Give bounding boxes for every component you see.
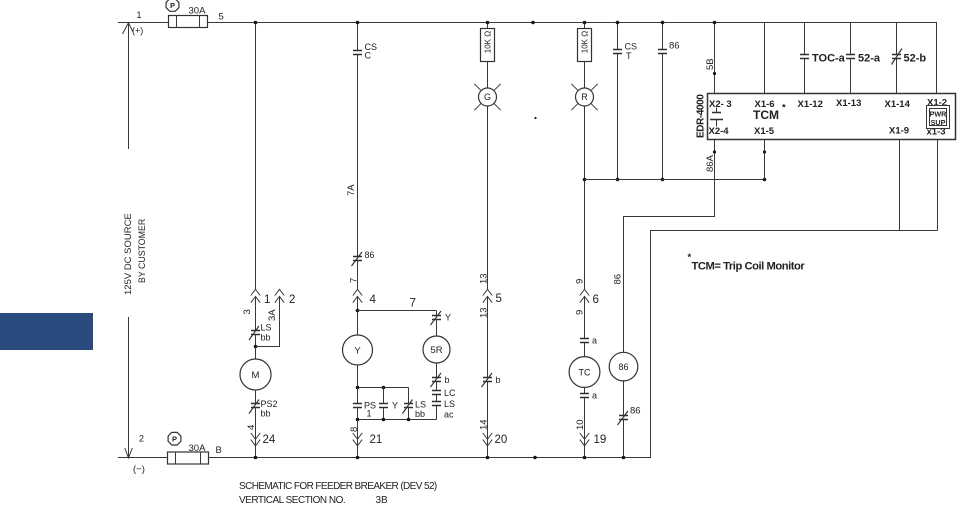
wire group to bottom rail (357, 420, 359, 458)
lamp R (576, 88, 594, 106)
relay coil 5R (423, 336, 450, 363)
svg-text:X1-9: X1-9 (889, 126, 909, 137)
arrow chevrons up node 6 (580, 289, 589, 302)
wire Y coil to parallel group (357, 365, 359, 388)
arrow (+) terminal up (123, 23, 134, 34)
svg-text:3: 3 (242, 309, 253, 314)
contact LC (NO) (432, 390, 441, 392)
svg-text:1: 1 (264, 294, 270, 306)
wire LS to bottom bus (436, 406, 438, 420)
svg-text:86: 86 (630, 406, 641, 417)
svg-text:3B: 3B (376, 495, 389, 506)
svg-text:13: 13 (479, 273, 490, 284)
relay coil Y (343, 335, 373, 365)
wire 52-b drop (896, 23, 898, 55)
svg-text:5B: 5B (705, 58, 716, 70)
contact a lower (NO) (580, 393, 589, 395)
stray dot bottom rail (533, 456, 537, 460)
svg-text:10K Ω: 10K Ω (484, 31, 493, 53)
wire CS T to bus (617, 54, 619, 180)
node dots G branch rails (486, 21, 490, 25)
wire TOC-a drop (804, 23, 806, 55)
svg-text:P: P (172, 435, 177, 444)
wire 86 to chevron (357, 261, 359, 290)
wire LS to M coil (255, 335, 257, 360)
contact LS bb (NC) (408, 388, 410, 404)
svg-text:TOC-a: TOC-a (812, 53, 846, 65)
wire top to resistor (487, 23, 489, 29)
wire 3A branch (256, 297, 280, 347)
svg-text:5: 5 (496, 293, 502, 305)
power supply PWR SUP box (927, 106, 950, 129)
resistor 10K red lamp (578, 29, 592, 62)
wire b to LC (436, 382, 438, 391)
svg-text:bb: bb (261, 409, 271, 419)
contact PS2 bb (NC) (251, 403, 260, 405)
wire contact to bottom rail (623, 420, 625, 458)
svg-text:Y: Y (445, 313, 451, 323)
contact 52-b (NC) (892, 54, 901, 56)
svg-text:86A: 86A (705, 154, 716, 172)
svg-text:X2-4: X2-4 (709, 126, 730, 137)
wire M branch to LS contact (255, 297, 257, 331)
symbol internal X2 contact (716, 108, 718, 113)
svg-text:R: R (581, 92, 588, 102)
contact a upper (NO) (580, 338, 589, 340)
arrow chevrons down node 19 (580, 433, 589, 446)
wire X1-6 drop (764, 23, 766, 94)
fuse F1 top 30A (169, 16, 208, 28)
svg-text:CS: CS (625, 42, 638, 52)
wire TC to a contact (584, 387, 586, 393)
wire left source rail lower (128, 317, 130, 457)
contact CS T (NO) (613, 49, 622, 51)
wire LC to LS (436, 395, 438, 402)
blue sidebar block (0, 313, 93, 350)
svg-text:24: 24 (263, 434, 276, 446)
arrow chevrons down node 21 (353, 433, 362, 446)
wire 86 coil to contact (623, 381, 625, 416)
wire left source rail upper (128, 23, 130, 149)
arrow chevrons up node 1 (251, 289, 260, 302)
contact 52-a (NO) (846, 54, 855, 56)
stray dot mid (534, 117, 536, 119)
wire resistor to lamp (584, 62, 586, 89)
svg-text:BY CUSTOMER: BY CUSTOMER (137, 219, 147, 283)
svg-text:VERTICAL SECTION NO.: VERTICAL SECTION NO. (239, 495, 345, 506)
svg-text:LS: LS (261, 323, 272, 333)
wire bottom negative rail (118, 231, 938, 458)
contact LS ac (NO) (432, 401, 441, 403)
wire X1-3 drop (937, 140, 939, 231)
svg-text:86: 86 (669, 41, 680, 52)
arrow chevrons down node 24 (251, 433, 260, 446)
arrow chevrons down node 20 (483, 433, 492, 446)
svg-text:X1-12: X1-12 (798, 99, 823, 110)
svg-text:6: 6 (593, 294, 599, 306)
svg-text:5R: 5R (430, 345, 442, 356)
svg-text:19: 19 (594, 434, 607, 446)
wire resistor to lamp (487, 62, 489, 89)
contact 86 (NC) (353, 256, 362, 258)
wire 5R to b contact (436, 363, 438, 378)
svg-text:1: 1 (367, 409, 372, 419)
node dots Y branch rails (356, 21, 360, 25)
svg-text:5: 5 (219, 12, 224, 23)
svg-text:ac: ac (444, 410, 454, 420)
svg-text:2: 2 (289, 294, 295, 306)
node dots R branch rails (583, 21, 587, 25)
wire top to resistor (584, 23, 586, 29)
svg-text:b: b (496, 375, 501, 385)
trip coil TC (569, 357, 600, 388)
wire parallel group bottom bus (358, 419, 437, 421)
svg-text:TC: TC (579, 368, 591, 378)
svg-text:SCHEMATIC FOR FEEDER BREAKER (: SCHEMATIC FOR FEEDER BREAKER (DEV 52) (239, 481, 437, 492)
motor M (240, 359, 271, 390)
symbol P octagon bottom fuse (168, 432, 181, 445)
svg-text:(−): (−) (133, 464, 145, 475)
svg-text:bb: bb (415, 409, 425, 419)
svg-text:9: 9 (575, 310, 586, 315)
svg-text:PS2: PS2 (261, 399, 278, 409)
node dot at monitor bus (583, 178, 587, 182)
svg-text:86: 86 (613, 274, 624, 285)
svg-text:86: 86 (365, 250, 375, 260)
svg-text:G: G (484, 92, 491, 102)
svg-text:bb: bb (261, 333, 271, 343)
wire 86 to bus (662, 54, 664, 180)
svg-text:B: B (216, 445, 222, 456)
fuse F2 bottom 30A (168, 452, 209, 464)
svg-text:LC: LC (444, 388, 456, 398)
wire X1-9 drop (899, 140, 901, 231)
svg-text:EDR-4000: EDR-4000 (696, 94, 707, 138)
node dots M branch rails (254, 21, 258, 25)
wire 52-a drop (850, 23, 852, 55)
wire chevron to a contact (584, 297, 586, 339)
wire PS2 to bottom rail (255, 408, 257, 458)
wire monitor bus y=179.5 (585, 179, 765, 181)
wire a to TC coil (584, 343, 586, 357)
resistor 10K green lamp (481, 29, 495, 62)
svg-text:X1-2: X1-2 (927, 98, 947, 109)
wire a to bottom rail (584, 398, 586, 458)
wire M coil to PS2 (255, 390, 257, 404)
svg-text:LS: LS (415, 400, 426, 410)
symbol P octagon top fuse (166, 0, 179, 11)
wire horizontal 7 to 5R branch (358, 310, 437, 312)
node 86A pin dot (713, 150, 716, 153)
svg-text:X1-5: X1-5 (754, 126, 775, 137)
svg-text:4: 4 (370, 294, 377, 306)
svg-text:T: T (626, 51, 632, 61)
svg-text:4: 4 (246, 425, 257, 430)
wire Y branch top (357, 23, 359, 51)
node 5B pin dot (713, 72, 716, 75)
svg-text:86: 86 (618, 362, 628, 372)
svg-text:P: P (170, 1, 175, 10)
svg-text:52-a: 52-a (858, 53, 881, 65)
contact PS 1 (NO) (357, 388, 359, 404)
contact LS bb (NC) (251, 330, 260, 332)
svg-text:3A: 3A (267, 309, 278, 321)
node junction to 5R (356, 309, 360, 313)
arrow (-) terminal down (125, 448, 133, 458)
lockout coil 86 (609, 352, 638, 381)
svg-text:X2- 3: X2- 3 (709, 99, 732, 110)
svg-text:TCM= Trip Coil Monitor: TCM= Trip Coil Monitor (692, 261, 806, 273)
svg-text:21: 21 (370, 434, 383, 446)
svg-text:30A: 30A (189, 5, 207, 16)
wire top to CS T (617, 23, 619, 50)
contact TOC-a (NO) (800, 54, 809, 56)
wire 5B to X2-3 (714, 23, 716, 94)
lamp G (479, 88, 497, 106)
svg-text:7: 7 (410, 298, 416, 310)
contact Y (NC) (436, 311, 438, 316)
wire parallel group top bus (358, 387, 409, 389)
branch 3A chevrons up node 2 (275, 289, 284, 302)
wire chevron to b contact (487, 297, 489, 378)
svg-text:(+): (+) (132, 26, 143, 36)
contact b (NC) (432, 377, 441, 379)
SECTION: EDR-4000 relay box (708, 94, 956, 140)
contact b (NC) (483, 377, 492, 379)
arrow chevrons up node 4 (353, 289, 362, 302)
svg-text:b: b (445, 375, 450, 385)
svg-text:a: a (592, 391, 597, 401)
svg-text:52-b: 52-b (904, 53, 927, 65)
wire X1-5 pin to bus (764, 140, 766, 180)
svg-text:8: 8 (349, 427, 360, 432)
svg-text:7: 7 (349, 278, 360, 283)
wire lamp to chevron (487, 106, 489, 289)
wire chevron to Y coil (357, 297, 359, 335)
arrow chevrons up node 5 (483, 289, 492, 302)
svg-text:20: 20 (495, 434, 508, 446)
contact Y seal-in (NO) (383, 388, 385, 404)
wire 86A route from EDR pin (624, 140, 715, 353)
svg-text:TCM: TCM (753, 108, 779, 122)
svg-text:14: 14 (479, 419, 490, 430)
wire b to bottom rail (487, 382, 489, 458)
svg-text:X1-13: X1-13 (836, 98, 861, 109)
svg-text:Y: Y (392, 401, 398, 411)
svg-text:1: 1 (137, 10, 142, 20)
svg-text:30A: 30A (189, 443, 207, 454)
svg-text:M: M (252, 370, 260, 381)
svg-text:LS: LS (444, 399, 455, 409)
svg-text:10K Ω: 10K Ω (581, 31, 590, 53)
svg-text:*: * (782, 103, 786, 114)
svg-text:7A: 7A (346, 184, 357, 196)
contact CS C (NO) (353, 50, 362, 52)
wire top positive rail (118, 23, 937, 94)
svg-text:9: 9 (575, 279, 586, 284)
svg-text:10: 10 (575, 419, 586, 430)
contact 86 (NO) (658, 49, 667, 51)
svg-text:Y: Y (354, 346, 361, 357)
svg-text:X1-14: X1-14 (885, 99, 911, 110)
wire to 5R coil (436, 320, 438, 337)
wire top to 86 (662, 23, 664, 50)
svg-text:SUP: SUP (931, 118, 946, 127)
svg-text:C: C (365, 51, 372, 61)
wire CS to 86 contact (357, 55, 359, 257)
wire M branch upper (255, 23, 257, 290)
wire lamp down through bus (584, 106, 586, 289)
svg-text:a: a (592, 336, 597, 346)
stray dot top rail (531, 21, 535, 25)
node junction M/3A (254, 345, 258, 349)
svg-text:125V DC SOURCE: 125V DC SOURCE (123, 213, 134, 295)
svg-text:2: 2 (139, 434, 144, 444)
contact 86 (NC) (619, 415, 628, 417)
